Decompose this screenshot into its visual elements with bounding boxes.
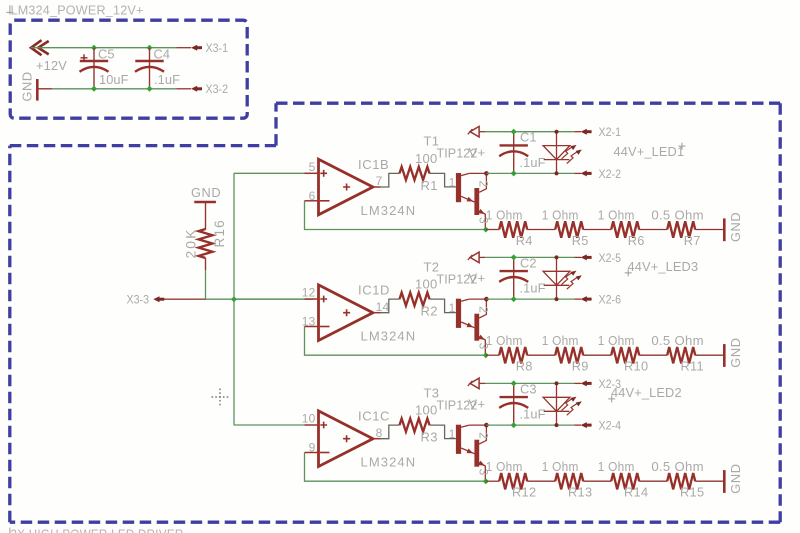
wire V+ pin line	[479, 131, 485, 133]
svg-text:+12V: +12V	[36, 58, 67, 73]
wire R16 to X3-3 net	[205, 270, 207, 299]
svg-text:LM324N: LM324N	[361, 203, 417, 218]
svg-text:.1uF: .1uF	[154, 72, 180, 87]
svg-text:IC1C: IC1C	[358, 409, 390, 424]
svg-text:R3: R3	[421, 430, 438, 445]
node emitter junction	[483, 227, 489, 233]
svg-text:5: 5	[309, 160, 316, 174]
svg-text:R4: R4	[516, 233, 533, 248]
svg-text:LM324N: LM324N	[361, 329, 417, 344]
svg-text:.1uF: .1uF	[520, 407, 546, 422]
resistor R8	[499, 347, 527, 363]
resistor R12	[499, 473, 527, 489]
svg-text:1: 1	[449, 175, 456, 189]
wire V+ to X2-3	[485, 382, 575, 384]
op-amp IC1C	[319, 411, 381, 467]
svg-text:X2-1: X2-1	[599, 125, 622, 139]
wire input bus vertical	[233, 173, 235, 425]
wire X3-3 net to bus	[206, 298, 314, 300]
svg-text:LM324N: LM324N	[361, 455, 417, 470]
svg-text:X2-5: X2-5	[599, 251, 622, 265]
wire to R13	[527, 480, 555, 482]
svg-text:V+: V+	[469, 271, 486, 286]
wire to R10	[583, 354, 611, 356]
ground GND (power box)	[37, 79, 52, 101]
resistor R9	[555, 347, 583, 363]
node C5 top junction	[91, 45, 97, 51]
svg-text:0.5 Ohm: 0.5 Ohm	[651, 208, 704, 223]
capacitor C1	[499, 132, 528, 174]
wire op-amp output to R1	[381, 173, 456, 187]
svg-text:1 Ohm: 1 Ohm	[598, 459, 635, 474]
wire collector to X2-4	[486, 424, 574, 426]
ground GND (above R16)	[194, 201, 216, 204]
wire op-amp output to R3	[381, 425, 456, 439]
svg-text:12: 12	[302, 286, 316, 300]
node LED anode	[555, 130, 559, 134]
supply V+ symbol	[468, 126, 479, 137]
svg-text:0.5 Ohm: 0.5 Ohm	[651, 459, 704, 474]
node C2 bottom junction	[511, 296, 517, 302]
svg-text:C1: C1	[520, 130, 537, 145]
node C4 bottom junction	[147, 86, 153, 92]
svg-text:V+: V+	[469, 397, 486, 412]
svg-text:R16: R16	[212, 219, 227, 247]
svg-text:1: 1	[449, 427, 456, 441]
node collector junction	[484, 423, 489, 428]
wire to R6	[583, 229, 611, 231]
resistor R14	[611, 473, 639, 489]
svg-text:X3-3: X3-3	[127, 293, 150, 307]
transistor T2 TIP122	[456, 299, 487, 356]
svg-text:14: 14	[376, 300, 390, 314]
node collector junction	[484, 297, 489, 302]
connector X2-2	[575, 170, 592, 176]
resistor R1	[400, 167, 430, 180]
node C5 bottom junction	[91, 86, 97, 92]
svg-text:R14: R14	[624, 485, 648, 500]
resistor R11	[667, 347, 695, 363]
node C1 top junction	[511, 129, 517, 135]
svg-text:100: 100	[415, 403, 438, 418]
svg-text:X2-2: X2-2	[599, 167, 622, 181]
connector X2-6	[575, 296, 592, 302]
svg-text:1 Ohm: 1 Ohm	[598, 333, 635, 348]
wire to R12	[486, 480, 499, 482]
svg-text:44V+_LED2: 44V+_LED2	[611, 385, 682, 400]
op-amp IC1D pin 12 stub	[305, 298, 319, 300]
main box dashed frame	[10, 103, 780, 522]
resistor R2	[400, 293, 430, 306]
node LED cathode	[555, 171, 559, 175]
op-amp IC1B	[319, 159, 381, 215]
svg-text:R8: R8	[516, 359, 533, 374]
svg-text:X2-6: X2-6	[599, 293, 622, 307]
frame origin cross (top)	[6, 5, 13, 14]
net label 44V+_LED3	[625, 259, 699, 276]
svg-text:2: 2	[477, 306, 491, 313]
power box dashed frame	[10, 20, 247, 118]
svg-text:R5: R5	[572, 233, 589, 248]
svg-text:44V+_LED3: 44V+_LED3	[628, 259, 699, 274]
wire to R9	[527, 354, 555, 356]
supply V+ symbol	[468, 252, 479, 263]
frame origin cross (bottom)	[9, 528, 11, 533]
node bus X3-3 junction	[231, 296, 237, 302]
svg-text:X3-1: X3-1	[206, 41, 229, 55]
op-amp IC1C pin 9 stub	[305, 452, 319, 454]
transistor T1 TIP122	[456, 173, 487, 230]
svg-text:2: 2	[477, 432, 491, 439]
svg-text:1 Ohm: 1 Ohm	[486, 459, 523, 474]
svg-text:GND: GND	[728, 212, 743, 242]
resistor R10	[611, 347, 639, 363]
wire to R14	[583, 480, 611, 482]
wire +12V to X3-1	[31, 47, 177, 49]
svg-text:R2: R2	[421, 304, 438, 319]
wire to R4	[486, 229, 499, 231]
svg-text:V+: V+	[469, 145, 486, 160]
connector X3-2	[191, 86, 202, 92]
svg-text:0.5 Ohm: 0.5 Ohm	[651, 333, 704, 348]
origin crosshair	[212, 389, 229, 406]
node collector junction	[484, 171, 489, 176]
wire collector to X2-6	[486, 298, 574, 300]
wire to R8	[486, 354, 499, 356]
svg-text:2: 2	[477, 180, 491, 187]
wire feedback from pin 9 to emitter node	[305, 453, 486, 482]
svg-text:R6: R6	[628, 233, 645, 248]
svg-text:7: 7	[376, 174, 383, 188]
connector X2-1	[575, 129, 592, 135]
wire bus to op-amp pin 10	[234, 424, 305, 426]
svg-text:6: 6	[309, 189, 316, 203]
svg-text:IC1B: IC1B	[358, 157, 389, 172]
svg-text:R1: R1	[421, 178, 438, 193]
wire collector to X2-2	[486, 172, 574, 174]
op-amp IC1B pin 6 stub	[305, 200, 319, 202]
ground GND (sense chain)	[723, 218, 726, 241]
resistor R13	[555, 473, 583, 489]
connector X3-1	[191, 45, 202, 51]
svg-text:.1uF: .1uF	[520, 155, 546, 170]
svg-text:1 Ohm: 1 Ohm	[486, 208, 523, 223]
svg-text:1 Ohm: 1 Ohm	[542, 333, 579, 348]
svg-text:13: 13	[302, 315, 316, 329]
capacitor C4	[135, 48, 164, 89]
svg-text:.1uF: .1uF	[520, 281, 546, 296]
resistor R5	[555, 221, 583, 237]
svg-text:R7: R7	[684, 233, 701, 248]
capacitor C3	[499, 383, 528, 425]
LED 44V+_LED1	[543, 132, 582, 174]
svg-text:GND: GND	[191, 185, 221, 200]
svg-text:C5: C5	[98, 47, 115, 62]
capacitor C2	[499, 257, 528, 299]
node C1 bottom junction	[511, 170, 517, 176]
node emitter junction	[483, 478, 489, 484]
wire chain to GND	[695, 480, 724, 482]
resistor R6	[611, 221, 639, 237]
svg-text:IC1D: IC1D	[358, 283, 390, 298]
svg-text:R12: R12	[512, 485, 536, 500]
svg-text:10uF: 10uF	[99, 72, 129, 87]
node LED anode	[555, 255, 559, 259]
wire V+ to X2-5	[485, 256, 575, 258]
wire bus to op-amp pin 12	[234, 298, 305, 300]
ground GND (sense chain)	[723, 470, 726, 493]
wire op-amp output to R2	[381, 299, 456, 313]
wire V+ to X2-1	[485, 131, 575, 133]
resistor R7	[667, 221, 695, 237]
svg-text:R15: R15	[680, 485, 704, 500]
wire to R15	[639, 480, 667, 482]
wire X3-3 pin line	[164, 298, 206, 300]
wire feedback from pin 13 to emitter node	[305, 327, 486, 356]
svg-text:1 Ohm: 1 Ohm	[598, 208, 635, 223]
resistor R15	[667, 473, 695, 489]
supply V+ symbol	[468, 378, 479, 389]
node C2 top junction	[511, 254, 517, 260]
capacitor C5	[80, 48, 109, 89]
svg-text:GND: GND	[20, 71, 35, 101]
svg-text:20K: 20K	[183, 228, 199, 259]
LED 44V+_LED3	[543, 257, 582, 299]
svg-text:1 Ohm: 1 Ohm	[542, 208, 579, 223]
node LED cathode	[555, 423, 559, 427]
node C3 bottom junction	[511, 422, 517, 428]
svg-text:1 Ohm: 1 Ohm	[486, 333, 523, 348]
svg-text:1: 1	[449, 301, 456, 315]
resistor R4	[499, 221, 527, 237]
svg-text:X3-2: X3-2	[206, 82, 229, 96]
svg-text:R13: R13	[568, 485, 592, 500]
connector X3-3	[153, 296, 164, 302]
svg-text:C3: C3	[520, 381, 537, 396]
wire bus to op-amp pin 5	[234, 172, 305, 174]
wire feedback from pin 6 to emitter node	[305, 201, 486, 230]
wire GND to X3-2	[52, 88, 177, 90]
LED 44V+_LED2	[543, 383, 582, 425]
node C4 top junction	[147, 45, 153, 51]
node LED cathode	[555, 297, 559, 301]
wire chain to GND	[695, 229, 724, 231]
node LED anode	[555, 381, 559, 385]
op-amp IC1D	[319, 285, 381, 341]
node C3 top junction	[511, 380, 517, 386]
svg-text:1 Ohm: 1 Ohm	[542, 459, 579, 474]
net label 44V+_LED1	[614, 143, 686, 159]
svg-text:LM324_POWER_12V+: LM324_POWER_12V+	[11, 4, 144, 18]
svg-text:GND: GND	[728, 337, 743, 367]
svg-text:GND: GND	[728, 463, 743, 493]
wire chain to GND	[695, 354, 724, 356]
svg-text:44V+_LED1: 44V+_LED1	[614, 144, 685, 159]
connector X2-3	[575, 380, 592, 386]
wire V+ pin line	[479, 382, 485, 384]
resistor R16	[199, 202, 213, 270]
svg-text:C4: C4	[154, 47, 171, 62]
connector X2-5	[575, 254, 592, 260]
svg-text:100: 100	[415, 277, 438, 292]
supply +12V symbol	[31, 40, 49, 55]
transistor T3 TIP122	[456, 425, 487, 482]
connector X2-4	[575, 422, 592, 428]
svg-text:100: 100	[415, 151, 438, 166]
wire to R11	[639, 354, 667, 356]
wire to R5	[527, 229, 555, 231]
svg-text:10: 10	[302, 412, 316, 426]
op-amp IC1B pin 5 stub	[305, 172, 319, 174]
svg-text:8: 8	[376, 426, 383, 440]
svg-text:X2-4: X2-4	[599, 419, 622, 433]
svg-text:R11: R11	[680, 359, 703, 374]
node emitter junction	[483, 352, 489, 358]
net label 44V+_LED2	[608, 385, 682, 402]
svg-text:R9: R9	[572, 359, 589, 374]
svg-text:C2: C2	[520, 255, 537, 270]
resistor R3	[400, 419, 430, 432]
svg-text:9: 9	[309, 441, 316, 455]
svg-text:3X HIGH POWER LED DRIVER: 3X HIGH POWER LED DRIVER	[11, 526, 184, 533]
wire to R7	[639, 229, 667, 231]
wire V+ pin line	[479, 256, 485, 258]
op-amp IC1D pin 13 stub	[305, 326, 319, 328]
op-amp IC1C pin 10 stub	[305, 424, 319, 426]
ground GND (sense chain)	[723, 344, 726, 367]
svg-text:R10: R10	[624, 359, 648, 374]
